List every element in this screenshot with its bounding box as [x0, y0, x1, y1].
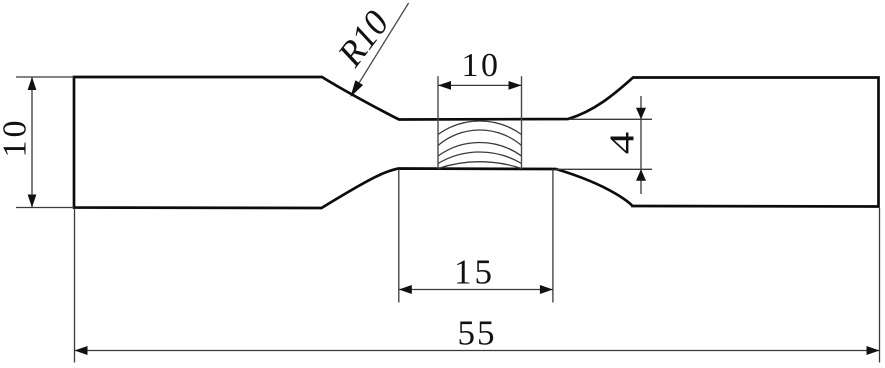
weld zone right boundary — [521, 76, 523, 169]
dimension 55: left extension line — [74, 209, 76, 363]
dimension 15: right extension line — [552, 169, 554, 303]
dimension 4 right: bottom extension line — [556, 168, 652, 170]
dimension 10 left: bottom arrow — [28, 195, 37, 208]
weld arc 1 — [438, 121, 522, 135]
svg-text:15: 15 — [454, 253, 495, 292]
dimension 15: left extension line — [398, 169, 400, 303]
svg-text:55: 55 — [458, 314, 497, 353]
svg-text:R10: R10 — [329, 3, 396, 74]
dimension 10 left: dimension line — [31, 77, 33, 208]
leader arrow R10 — [350, 80, 363, 97]
dimension 55: right extension line — [879, 208, 881, 363]
svg-text:10: 10 — [462, 47, 501, 84]
dimension 10 top: left arrow — [438, 81, 451, 90]
dimension 10 left: top arrow — [28, 77, 37, 90]
dimension 4 right: top arrow — [636, 108, 646, 120]
dimension 4 right: dimension line — [640, 96, 642, 194]
specimen outline (dog-bone tensile specimen) — [74, 77, 879, 208]
weld arc 5 — [438, 162, 522, 169]
dimension 10 top: right arrow — [509, 81, 522, 90]
dimension 10 left: top extension line — [16, 76, 74, 78]
dimension 15: left arrow — [399, 285, 412, 294]
dimension 15: right arrow — [540, 285, 553, 294]
dimension 55: right arrow — [867, 346, 880, 355]
dimension 4 right: top extension line — [570, 118, 652, 120]
dimension 10 left: bottom extension line — [16, 207, 74, 209]
dimension 55: left arrow — [75, 346, 88, 355]
leader line R10 — [353, 3, 409, 94]
dimension 55: dimension line — [75, 350, 880, 352]
dimension 10 top: dimension line — [438, 84, 522, 86]
svg-text:10: 10 — [0, 118, 34, 158]
weld zone left boundary — [437, 76, 439, 169]
dimension 15: dimension line — [399, 289, 553, 291]
svg-text:4: 4 — [602, 132, 641, 155]
weld arc 2 — [438, 130, 522, 145]
weld arc 3 — [438, 142, 522, 156]
dimension 4 right: bottom arrow — [636, 169, 646, 181]
weld arc 4 — [438, 152, 522, 164]
